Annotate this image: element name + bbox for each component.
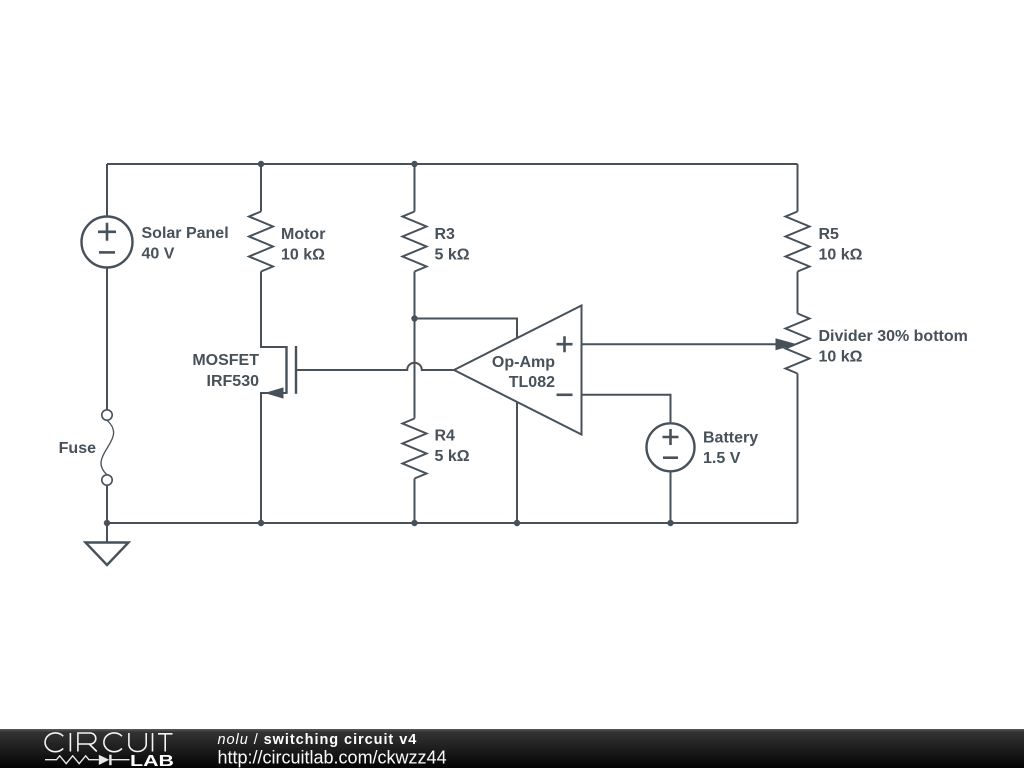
svg-text:http://circuitlab.com/ckwzz44: http://circuitlab.com/ckwzz44 [218,747,447,767]
svg-text:LAB: LAB [130,753,174,768]
logo CIRCUIT (hand-drawn thin strokes) [45,733,172,752]
wire node to op-amp V+ [415,319,518,339]
junction dot opamp V- [514,520,520,526]
resistor R4 [403,419,427,479]
op-amp - input mark [557,393,573,396]
wire R3 branch top [414,164,416,212]
resistor R3 [403,212,427,272]
wire bottom rail [107,522,798,524]
svg-text:Op-Amp: Op-Amp [492,354,555,371]
wiper arrow head [776,338,798,350]
svg-text:5 kΩ: 5 kΩ [435,247,470,264]
op-amp U1 triangle [454,306,582,435]
wire node to R4 [414,319,416,419]
junction dot R4 bottom [411,520,417,526]
logo squiggle resistor-diode [45,755,130,766]
svg-text:10 kΩ: 10 kΩ [819,349,863,366]
op-amp + input mark [557,336,573,352]
wire motor to MOSFET drain [261,272,287,348]
wire right rail upper [797,164,799,212]
voltage source Solar Panel [82,217,133,268]
wire motor branch top [260,164,262,212]
junction dot top R3 [411,161,417,167]
wire op-amp + to divider wiper [582,343,778,345]
svg-text:Motor: Motor [281,226,325,243]
wire R4 to bottom rail [414,479,416,524]
resistor R5 [786,212,810,272]
resistor Motor [249,212,273,272]
wire divider to bottom rail [797,374,799,524]
junction dot ground [104,520,110,526]
svg-text:R5: R5 [819,226,840,243]
wire MOSFET gate [296,363,454,370]
transistor MOSFET IRF530 [285,346,287,394]
svg-text:1.5 V: 1.5 V [703,450,741,467]
svg-text:R4: R4 [435,428,456,445]
svg-text:TL082: TL082 [509,374,555,391]
wire R5 to divider [797,272,799,314]
junction dot top motor [258,161,264,167]
potentiometer Divider 30% bottom [786,314,810,374]
svg-text:MOSFET: MOSFET [192,352,259,369]
junction node A [411,315,417,321]
wire R3 to node [414,272,416,319]
svg-text:IRF530: IRF530 [207,373,260,390]
svg-text:nolu / switching circuit v4: nolu / switching circuit v4 [218,732,418,748]
svg-text:Battery: Battery [703,430,758,447]
wire solar to fuse [106,268,108,410]
svg-text:Divider 30% bottom: Divider 30% bottom [819,328,968,345]
fuse F1 [102,410,112,420]
wire fuse to bottom [106,485,108,523]
wire battery to bottom rail [670,472,672,523]
voltage source Battery [647,423,695,471]
wire top rail [107,163,798,165]
svg-text:Solar Panel: Solar Panel [142,225,229,242]
svg-text:Fuse: Fuse [59,440,96,457]
svg-text:5 kΩ: 5 kΩ [435,448,470,465]
ground [106,523,108,543]
svg-text:10 kΩ: 10 kΩ [281,247,325,264]
junction dot mosfet source [258,520,264,526]
svg-text:10 kΩ: 10 kΩ [819,247,863,264]
junction dot battery bottom [667,520,673,526]
svg-text:R3: R3 [435,226,456,243]
wire solar top [106,164,108,217]
footer bar [0,729,1024,768]
svg-text:40 V: 40 V [142,246,175,263]
wire op-amp - to battery [582,395,671,423]
wire op-amp V- to bottom rail [516,402,518,524]
